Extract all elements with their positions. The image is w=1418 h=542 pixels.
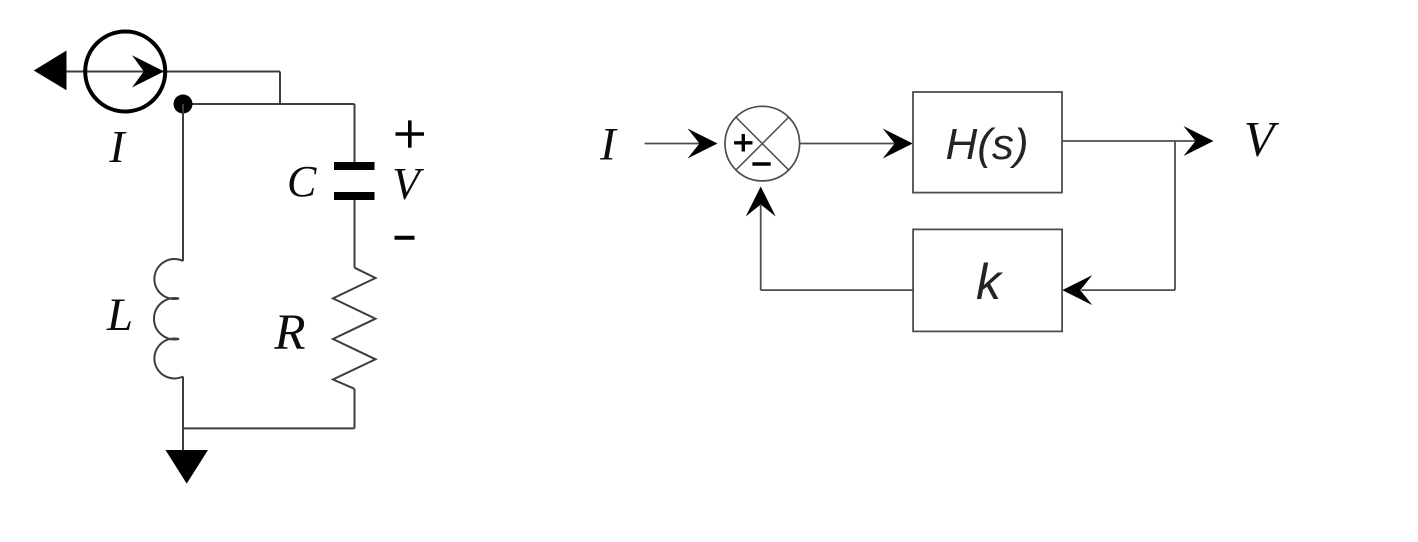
svg-text:V: V (392, 159, 424, 209)
arrowhead into summer (688, 129, 718, 159)
ground (166, 450, 209, 484)
capacitor C bottom plate (334, 192, 375, 200)
wire : left branch upper (182, 104, 184, 261)
wire : capacitor to resistor (354, 200, 356, 268)
label minus (summer) (752, 162, 770, 165)
wire : summer to H(s) (800, 143, 896, 145)
summing junction X (736, 117, 789, 170)
summing junction (725, 106, 800, 181)
arrowhead output V (1184, 126, 1214, 156)
wire : bottom rail (183, 427, 355, 429)
svg-text:I: I (108, 121, 127, 172)
wire : right branch to capacitor (354, 104, 356, 163)
arrowhead into H(s) (883, 129, 913, 159)
wire : feedback vertical left (760, 205, 762, 290)
arrowhead inside source (132, 55, 164, 87)
wire : node horizontal (183, 103, 355, 105)
svg-text:I: I (599, 119, 618, 171)
block k (913, 229, 1062, 331)
capacitor C top plate (334, 162, 375, 170)
wire : current source shaft (45, 71, 280, 73)
arrowhead left (current direction out) (34, 51, 67, 91)
block H(s) (913, 92, 1062, 193)
resistor R (333, 268, 376, 389)
wire : feedback bottom (761, 289, 913, 291)
label + (cap) (396, 120, 425, 147)
current source I1 (85, 32, 165, 112)
wire : top right drop (279, 72, 281, 105)
wire : left branch lower (182, 377, 184, 451)
wire : resistor to bottom rail (354, 389, 356, 429)
svg-text:L: L (106, 289, 133, 341)
wire : feedback into k (1082, 289, 1176, 291)
wire : input arrow shaft (645, 143, 701, 145)
label + (summer) (734, 134, 752, 152)
node junction dot (174, 95, 193, 114)
wire : output line (1062, 140, 1196, 142)
arrowhead into summer bottom (746, 187, 776, 217)
svg-text:H(s): H(s) (945, 120, 1028, 169)
arrowhead into k (1062, 275, 1092, 305)
wire : feedback vertical right (1174, 141, 1176, 290)
inductor L (154, 259, 183, 378)
label minus (cap) (395, 236, 415, 240)
svg-text:C: C (287, 157, 317, 206)
svg-text:k: k (976, 254, 1004, 310)
svg-text:R: R (273, 305, 305, 361)
